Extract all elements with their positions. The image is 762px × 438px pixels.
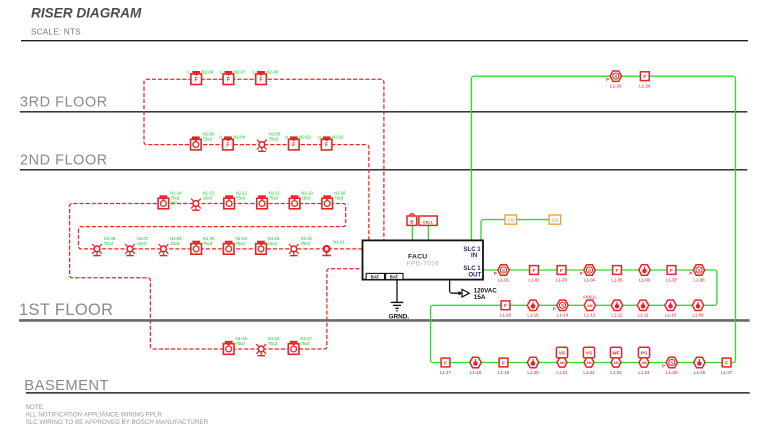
ceiling strobe N1-06 bbox=[159, 236, 183, 256]
heat detector L1-11 bbox=[637, 300, 649, 318]
svg-text:L1-27: L1-27 bbox=[721, 370, 733, 375]
battery BAT.1 bbox=[366, 273, 384, 279]
wire: NAC 2nd floor riser from FACU top bbox=[144, 79, 384, 240]
svg-text:U: U bbox=[285, 135, 288, 140]
svg-text:L1-11: L1-11 bbox=[638, 313, 649, 318]
valve supervisory w/ monitor module L1-21 bbox=[556, 347, 568, 375]
svg-text:L1-13: L1-13 bbox=[584, 313, 596, 318]
horn/strobe N1-04 bbox=[223, 236, 247, 254]
svg-text:L1-26: L1-26 bbox=[694, 370, 706, 375]
svg-text:3RD FLOOR: 3RD FLOOR bbox=[20, 94, 108, 110]
svg-text:L1-10: L1-10 bbox=[665, 313, 677, 318]
svg-text:1ST FLOOR: 1ST FLOOR bbox=[19, 301, 113, 319]
svg-text:75cd: 75cd bbox=[203, 241, 213, 246]
svg-text:L1-08: L1-08 bbox=[693, 277, 705, 282]
svg-text:L1-16: L1-16 bbox=[500, 313, 512, 318]
svg-text:N2-07: N2-07 bbox=[234, 69, 246, 74]
horn N2-07 bbox=[220, 69, 247, 84]
title underline bbox=[21, 40, 748, 42]
svg-text:L1-28: L1-28 bbox=[639, 84, 651, 89]
horn N2-04 bbox=[219, 135, 246, 150]
horn N2-01 bbox=[318, 135, 345, 150]
svg-text:L1-03: L1-03 bbox=[556, 277, 568, 282]
horn/strobe N1-15 bbox=[223, 336, 247, 354]
wire: cell communicator stem bbox=[427, 225, 429, 240]
horn/strobe N2-05 bbox=[191, 132, 215, 150]
svg-text:L1-21: L1-21 bbox=[556, 370, 568, 375]
ceiling strobe N1-07 bbox=[125, 236, 149, 256]
svg-text:L1-07: L1-07 bbox=[666, 277, 678, 282]
svg-text:SCALE: NTS: SCALE: NTS bbox=[31, 27, 81, 36]
svg-text:75cd: 75cd bbox=[300, 341, 310, 346]
svg-text:WF: WF bbox=[612, 351, 619, 356]
svg-text:N2-04: N2-04 bbox=[234, 135, 246, 140]
pull station L1-19 bbox=[498, 358, 510, 375]
svg-text:L1-19: L1-19 bbox=[498, 370, 510, 375]
subtitle: SCALE: NTS bbox=[31, 27, 81, 36]
svg-text:OUT: OUT bbox=[468, 271, 481, 278]
smoke detector L1-25 bbox=[662, 357, 678, 375]
svg-text:15cd: 15cd bbox=[268, 241, 278, 246]
svg-text:CELL: CELL bbox=[423, 219, 434, 224]
svg-text:L1-20: L1-20 bbox=[527, 370, 539, 375]
svg-text:N2-06: N2-06 bbox=[202, 69, 214, 74]
svg-text:L1-12: L1-12 bbox=[611, 313, 623, 318]
svg-text:L1-18: L1-18 bbox=[470, 370, 482, 375]
svg-text:L1-04: L1-04 bbox=[584, 277, 596, 282]
heat detector L1-06 bbox=[639, 265, 651, 283]
horn/strobe N1-05 bbox=[191, 236, 215, 254]
ceiling strobe N1-13 bbox=[191, 191, 215, 211]
svg-text:75cd: 75cd bbox=[334, 196, 344, 201]
door holder N1-01 bbox=[322, 240, 345, 256]
horn N2-02 bbox=[285, 135, 312, 150]
wire: NAC loop FACU out through 1st-floor lower row, upper row, basement, back to FACU bbox=[70, 204, 363, 350]
svg-text:75cd: 75cd bbox=[268, 341, 278, 346]
smoke detector L1-08 bbox=[689, 265, 705, 283]
1st floor line bbox=[19, 319, 750, 322]
ceiling strobe N2-03 bbox=[257, 132, 281, 152]
svg-text:L1-15: L1-15 bbox=[527, 313, 539, 318]
120VAC 15A feed bbox=[450, 280, 498, 301]
svg-text:GRND.: GRND. bbox=[389, 313, 410, 320]
pull station L1-02 bbox=[528, 266, 540, 283]
heat detector L1-12 bbox=[611, 300, 623, 318]
heat detector L1-18 bbox=[470, 357, 482, 375]
pull station L1-27 bbox=[721, 358, 733, 375]
3rd floor line bbox=[20, 111, 748, 113]
floor label 1ST FLOOR bbox=[19, 301, 113, 319]
svg-text:N2-01: N2-01 bbox=[332, 135, 344, 140]
pull station L1-28 bbox=[639, 72, 651, 89]
svg-text:BASEMENT: BASEMENT bbox=[24, 378, 109, 394]
floor label 3RD FLOOR bbox=[20, 94, 108, 110]
svg-text:75cd: 75cd bbox=[269, 137, 279, 142]
svg-text:L1-29: L1-29 bbox=[610, 84, 622, 89]
svg-text:75cd: 75cd bbox=[301, 241, 311, 246]
svg-text:L1-24: L1-24 bbox=[638, 370, 650, 375]
svg-text:75cd: 75cd bbox=[236, 196, 246, 201]
svg-text:75cd: 75cd bbox=[203, 137, 213, 142]
svg-text:FACU: FACU bbox=[408, 253, 427, 260]
battery BAT.2 bbox=[386, 273, 403, 279]
svg-text:75cd: 75cd bbox=[269, 196, 279, 201]
horn/strobe N1-03 bbox=[256, 236, 280, 254]
heat detector L1-20 bbox=[527, 357, 539, 375]
2nd floor line bbox=[20, 169, 748, 171]
svg-text:U: U bbox=[252, 69, 255, 74]
pull station L1-07 bbox=[666, 266, 678, 283]
svg-text:BAT.: BAT. bbox=[371, 274, 380, 279]
pull station L1-16 bbox=[500, 301, 512, 318]
svg-text:U: U bbox=[318, 135, 321, 140]
heat detector L1-15 bbox=[527, 300, 539, 318]
smoke detector L1-14 bbox=[553, 300, 569, 318]
pull station L1-03 bbox=[556, 266, 568, 283]
svg-text:RISER DIAGRAM: RISER DIAGRAM bbox=[31, 5, 142, 20]
svg-text:ANSUL: ANSUL bbox=[583, 295, 598, 300]
svg-text:L1-01: L1-01 bbox=[498, 277, 510, 282]
monitor module L1-13 (ANSUL) bbox=[583, 295, 598, 318]
svg-text:U: U bbox=[219, 135, 222, 140]
svg-text:75cd: 75cd bbox=[236, 241, 246, 246]
ground wire and symbol GRND. bbox=[389, 280, 410, 321]
ceiling strobe N1-08 bbox=[92, 236, 116, 256]
floor label BASEMENT bbox=[24, 378, 109, 394]
cellular communicator CELL bbox=[419, 216, 437, 225]
svg-text:L1-23: L1-23 bbox=[610, 370, 622, 375]
wire: SLC out loop rows 1-3 then riser to 3rd floor and back to SLC in bbox=[431, 76, 736, 362]
svg-text:15cd: 15cd bbox=[203, 196, 213, 201]
svg-text:FPD-7024: FPD-7024 bbox=[407, 261, 440, 268]
svg-text:15cd: 15cd bbox=[301, 196, 311, 201]
svg-text:L1-09: L1-09 bbox=[692, 313, 704, 318]
bell box B bbox=[407, 214, 417, 226]
svg-text:ALL NOTIFICATION APPLIANCE WIR: ALL NOTIFICATION APPLIANCE WIRING FPLR bbox=[26, 412, 163, 419]
svg-text:15cd: 15cd bbox=[137, 241, 147, 246]
svg-text:VS: VS bbox=[586, 351, 592, 356]
heat detector L1-26 bbox=[694, 357, 706, 375]
svg-text:WP: WP bbox=[170, 201, 177, 206]
valve supervisory w/ monitor module L1-22 bbox=[583, 347, 595, 375]
ceiling strobe N1-02 bbox=[289, 236, 313, 256]
svg-text:NOTE:: NOTE: bbox=[26, 404, 45, 411]
svg-text:L1-25: L1-25 bbox=[666, 370, 678, 375]
horn/strobe N1-11 bbox=[257, 191, 281, 209]
svg-text:L1-22: L1-22 bbox=[583, 370, 595, 375]
svg-text:SLC WIRING TO BE APPROVED BY B: SLC WIRING TO BE APPROVED BY BOSCH MANUF… bbox=[26, 419, 209, 426]
basement line bbox=[26, 392, 750, 394]
CO detector 1 bbox=[505, 215, 517, 224]
notes text bbox=[26, 404, 209, 426]
horn/strobe N1-12 bbox=[224, 191, 248, 209]
svg-text:2ND FLOOR: 2ND FLOOR bbox=[20, 152, 108, 168]
horn N2-06 bbox=[187, 69, 214, 84]
horn/strobe N1-09 bbox=[322, 191, 346, 209]
FACU panel FPD-7024 bbox=[363, 240, 484, 279]
svg-text:L1-17: L1-17 bbox=[440, 370, 452, 375]
svg-text:15A: 15A bbox=[474, 294, 486, 301]
wire: bell circuit stem bbox=[411, 225, 413, 240]
svg-text:U: U bbox=[220, 69, 223, 74]
CO detector 2 bbox=[549, 215, 561, 224]
svg-text:15cd: 15cd bbox=[170, 241, 180, 246]
svg-text:N2-08: N2-08 bbox=[267, 69, 279, 74]
horn/strobe N1-10 bbox=[289, 191, 313, 209]
heat detector L1-10 bbox=[665, 300, 677, 318]
svg-text:75cd: 75cd bbox=[236, 341, 246, 346]
pressure switch w/ monitor module L1-24 bbox=[638, 347, 650, 375]
svg-text:N2-02: N2-02 bbox=[299, 135, 311, 140]
pull station L1-05 bbox=[611, 266, 623, 283]
svg-text:N1-01: N1-01 bbox=[333, 240, 345, 245]
title: RISER DIAGRAM bbox=[31, 5, 142, 20]
svg-text:PS: PS bbox=[641, 351, 647, 356]
smoke detector L1-01 bbox=[494, 265, 510, 283]
svg-text:VS: VS bbox=[559, 351, 565, 356]
floor label 2ND FLOOR bbox=[20, 152, 108, 168]
horn N2-08 bbox=[252, 69, 279, 84]
svg-text:BAT.: BAT. bbox=[390, 274, 399, 279]
smoke detector L1-29 bbox=[606, 71, 622, 89]
waterflow switch w/ monitor module L1-23 bbox=[610, 347, 622, 375]
svg-text:IN: IN bbox=[471, 252, 477, 259]
svg-text:L1-05: L1-05 bbox=[611, 277, 623, 282]
svg-text:75cd: 75cd bbox=[104, 241, 114, 246]
svg-text:L1-14: L1-14 bbox=[557, 313, 569, 318]
wire: CO detector branch from FACU top bbox=[481, 220, 555, 241]
horn/strobe N1-17 bbox=[288, 336, 312, 354]
horn/strobe N1-14 bbox=[158, 191, 182, 209]
pull station L1-17 bbox=[440, 358, 452, 375]
svg-text:U: U bbox=[187, 69, 190, 74]
svg-text:L1-02: L1-02 bbox=[528, 277, 540, 282]
ceiling strobe N1-16 bbox=[256, 336, 280, 356]
svg-text:L1-06: L1-06 bbox=[639, 277, 651, 282]
smoke detector L1-04 bbox=[580, 265, 596, 283]
heat detector L1-09 bbox=[692, 300, 704, 318]
